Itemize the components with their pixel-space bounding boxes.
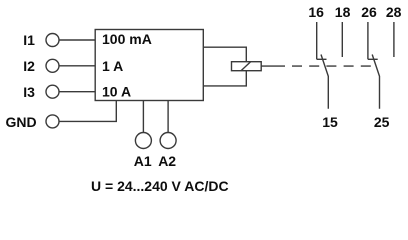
terminal circle A1 bbox=[135, 133, 151, 149]
wire I1 to box bbox=[59, 39, 95, 41]
svg-text:A1: A1 bbox=[134, 153, 152, 169]
fixed contact 28 (NO) bbox=[393, 22, 395, 57]
relay coil K1 bbox=[232, 62, 262, 71]
wire GND to box bottom bbox=[59, 101, 116, 122]
svg-text:100 mA: 100 mA bbox=[102, 31, 152, 47]
movable contact lever 25 bbox=[372, 55, 379, 109]
wire A2 bbox=[167, 101, 169, 133]
svg-text:GND: GND bbox=[6, 114, 37, 130]
svg-text:28: 28 bbox=[386, 4, 402, 20]
terminal circle I3 bbox=[46, 85, 59, 98]
svg-text:10 A: 10 A bbox=[102, 84, 131, 100]
wire I2 to box bbox=[59, 65, 95, 67]
svg-text:U = 24...240 V AC/DC: U = 24...240 V AC/DC bbox=[91, 178, 229, 194]
fixed contact 18 (NO) bbox=[341, 22, 343, 57]
terminal circle GND bbox=[46, 115, 59, 128]
fixed contact 26 (NC) bbox=[367, 22, 369, 59]
device box U1 bbox=[95, 30, 203, 101]
wire A1 bbox=[142, 101, 144, 133]
svg-text:I2: I2 bbox=[23, 58, 35, 74]
wire I3 to box bbox=[59, 91, 95, 93]
svg-text:15: 15 bbox=[322, 114, 338, 130]
fixed contact 16 (NC) bbox=[316, 22, 318, 59]
svg-text:A2: A2 bbox=[158, 153, 176, 169]
terminal circle I1 bbox=[46, 34, 59, 47]
mechanical linkage (dashed) bbox=[292, 65, 376, 67]
wire box to coil (top) bbox=[203, 47, 246, 62]
terminal circle I2 bbox=[46, 59, 59, 72]
contact seat 26 bbox=[368, 58, 378, 60]
terminal circle A2 bbox=[160, 133, 176, 149]
svg-text:1 A: 1 A bbox=[102, 58, 123, 74]
svg-text:26: 26 bbox=[361, 4, 377, 20]
contact seat 16 bbox=[317, 58, 327, 60]
movable contact lever 15 bbox=[321, 55, 328, 109]
svg-text:25: 25 bbox=[374, 114, 390, 130]
svg-text:I3: I3 bbox=[23, 84, 35, 100]
wire box to coil (bottom) bbox=[203, 71, 246, 86]
wire coil output bbox=[261, 65, 285, 67]
svg-text:18: 18 bbox=[335, 4, 351, 20]
svg-text:I1: I1 bbox=[23, 32, 35, 48]
svg-text:16: 16 bbox=[308, 4, 324, 20]
